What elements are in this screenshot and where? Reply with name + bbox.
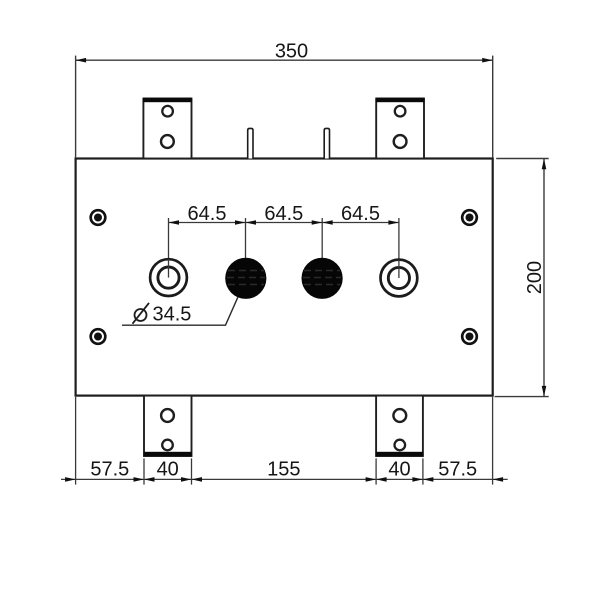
- svg-text:34.5: 34.5: [153, 304, 192, 326]
- svg-text:64.5: 64.5: [188, 203, 227, 225]
- svg-text:200: 200: [524, 261, 546, 294]
- svg-text:40: 40: [388, 458, 410, 480]
- svg-text:155: 155: [267, 458, 300, 480]
- svg-text:64.5: 64.5: [341, 203, 380, 225]
- svg-text:57.5: 57.5: [90, 458, 129, 480]
- svg-text:350: 350: [275, 40, 308, 62]
- svg-text:64.5: 64.5: [264, 203, 303, 225]
- svg-text:40: 40: [157, 458, 179, 480]
- svg-text:57.5: 57.5: [438, 458, 477, 480]
